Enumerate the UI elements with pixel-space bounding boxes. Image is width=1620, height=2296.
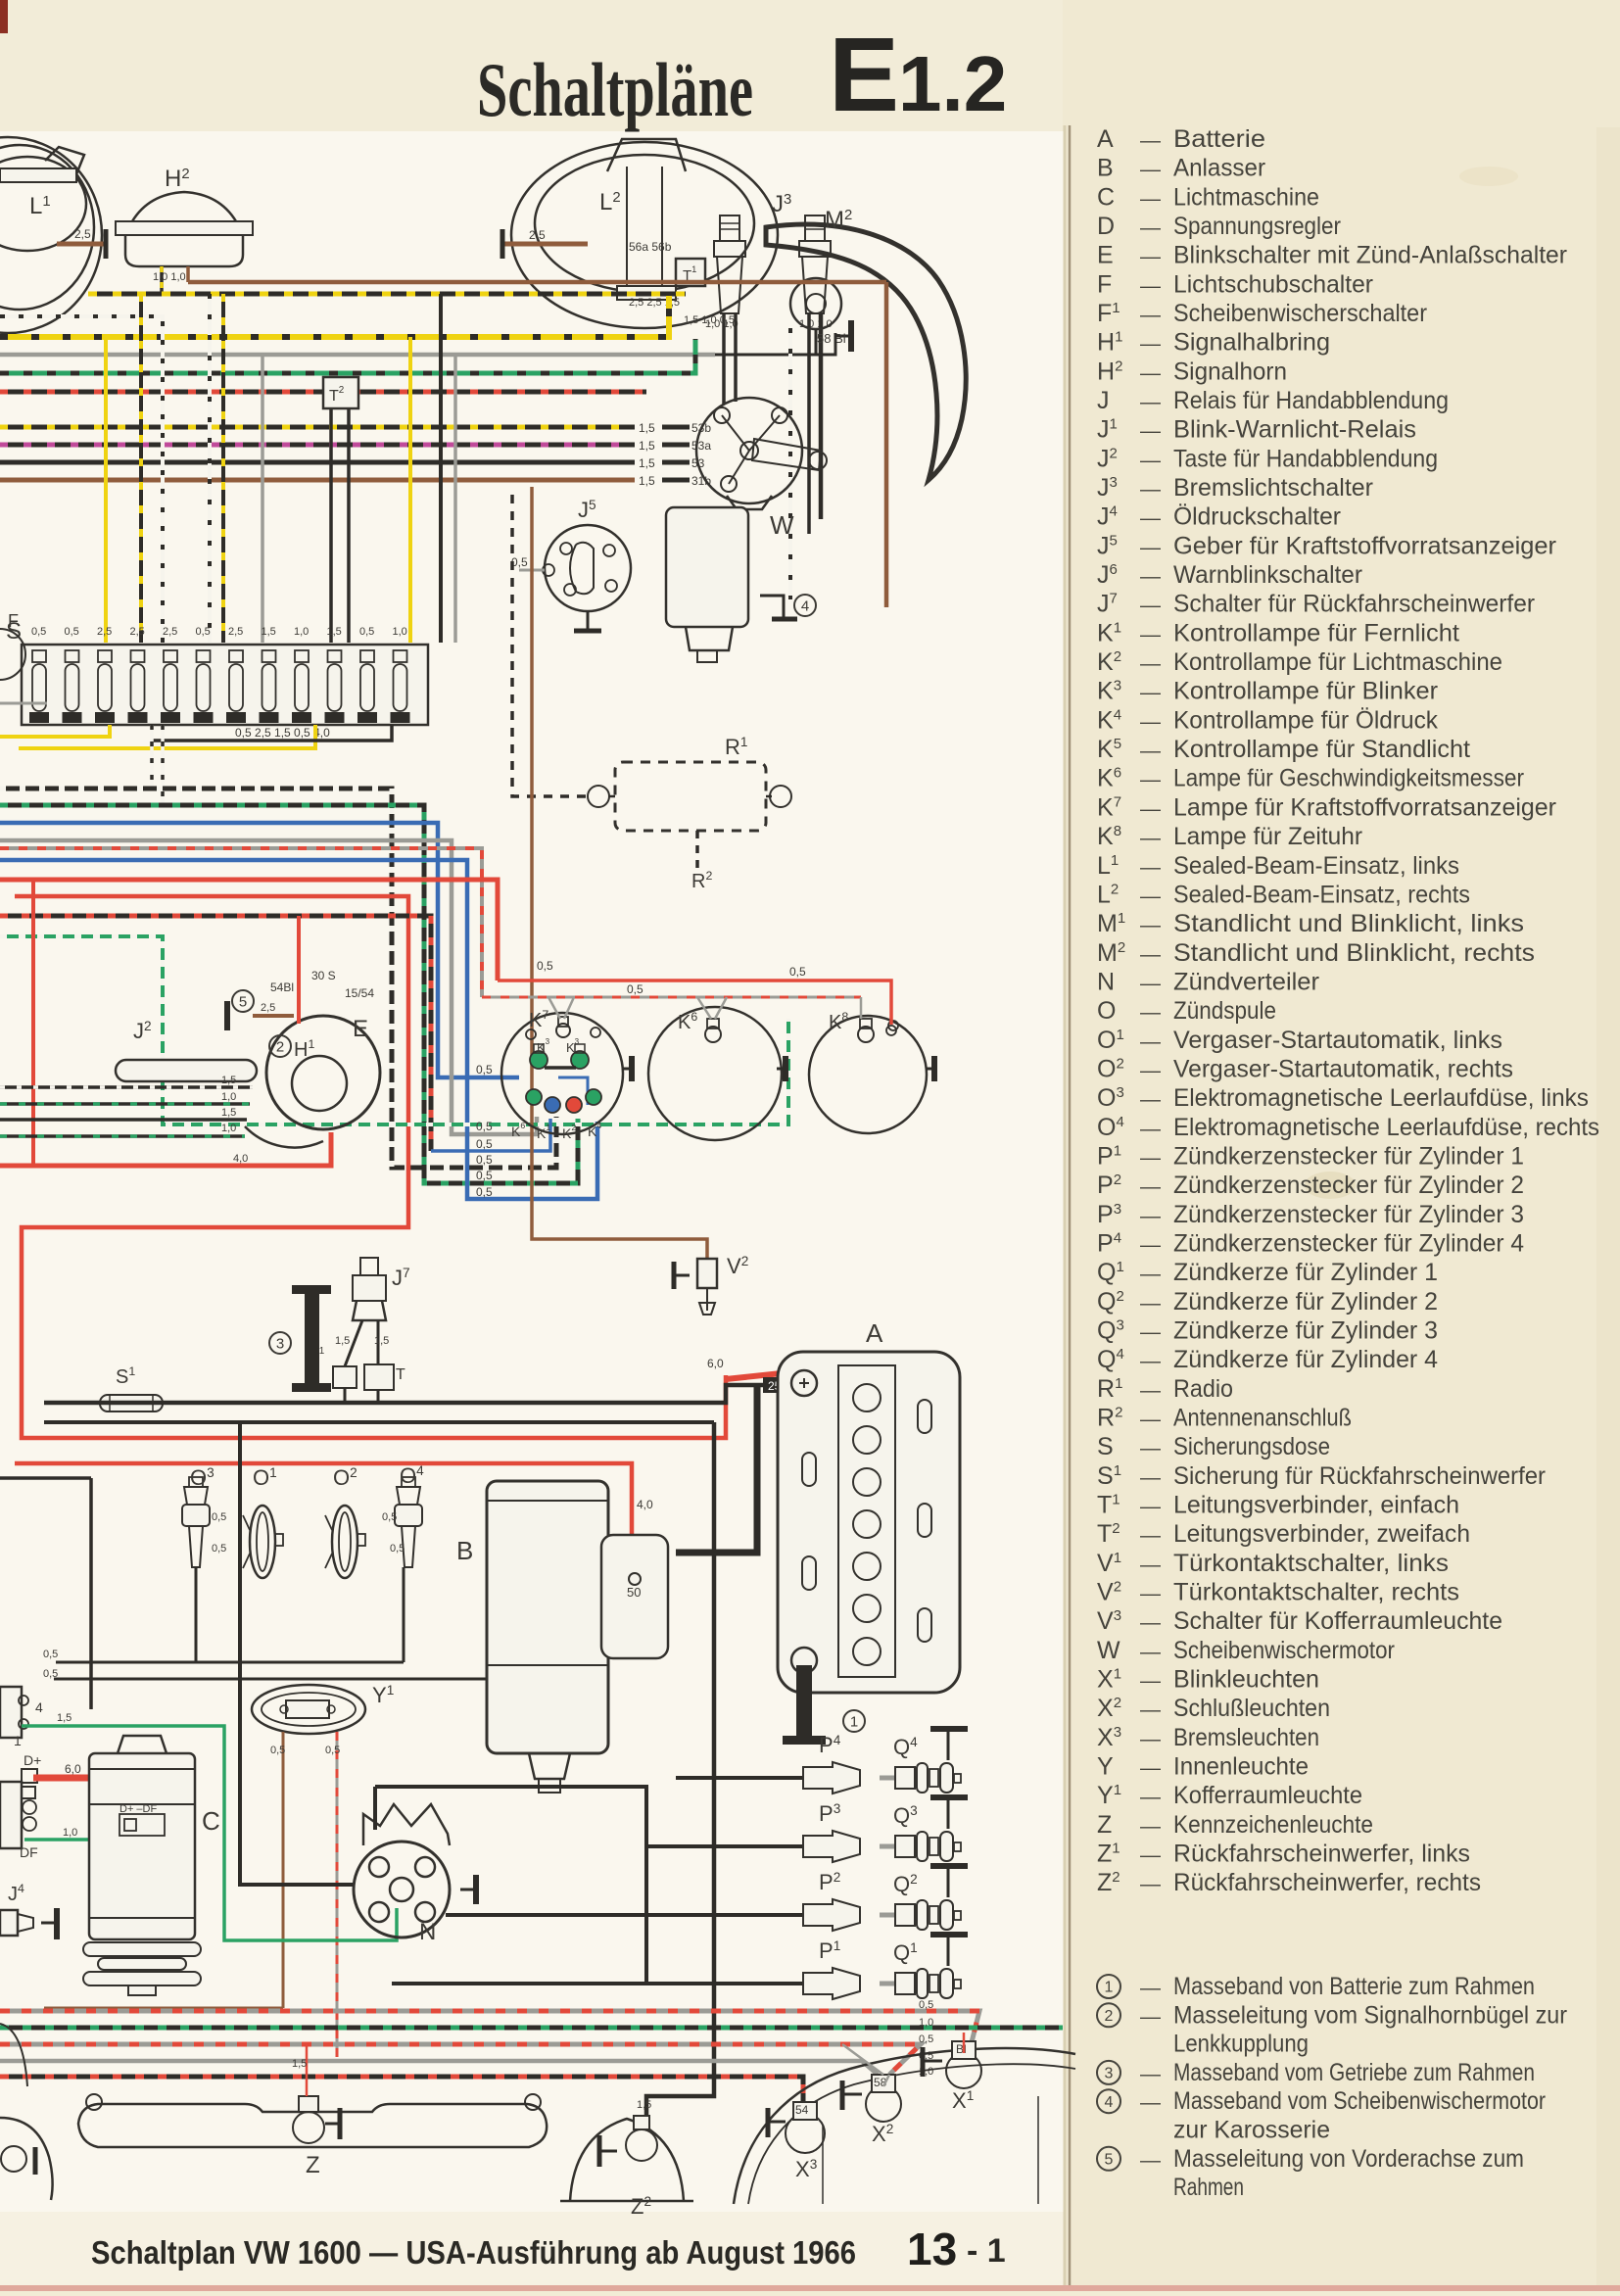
brake light switch J3 left: [720, 215, 739, 241]
ground wire 5: [253, 1014, 294, 1018]
svg-text:—: —: [1140, 2149, 1161, 2172]
wire red cluster feed: [498, 981, 891, 1025]
svg-text:Relais für Handabblendung: Relais für Handabblendung: [1173, 387, 1449, 414]
ground at X3: [766, 2108, 771, 2137]
svg-text:Kennzeichenleuchte: Kennzeichenleuchte: [1173, 1811, 1373, 1839]
battery slot: [918, 1400, 931, 1433]
wire red-grey band 1: [0, 2011, 979, 2042]
wire brown bottom: [44, 2007, 283, 2010]
svg-text:0,5: 0,5: [627, 982, 643, 996]
svg-text:Z: Z: [306, 2152, 320, 2178]
svg-text:2: 2: [276, 1038, 284, 1055]
ground at Z: [338, 2108, 343, 2139]
dimmer button J2: [116, 1060, 257, 1081]
wire red starter feed: [15, 1463, 632, 1575]
svg-text:—: —: [1140, 797, 1161, 820]
fuse 5: [164, 650, 177, 662]
svg-text:2,5: 2,5: [130, 626, 145, 638]
connector T1 lower: [333, 1366, 357, 1388]
ground note 4: [1097, 2089, 1120, 2113]
svg-text:E: E: [829, 15, 899, 133]
svg-text:Bremsleuchten: Bremsleuchten: [1173, 1724, 1319, 1751]
lamp K6: [526, 1089, 542, 1105]
wire green to distributor: [22, 1726, 397, 1940]
wire lamp feeds: [883, 2075, 889, 2086]
wire black-green band bottom: [0, 2026, 1063, 2031]
svg-text:Sealed-Beam-Einsatz, rechts: Sealed-Beam-Einsatz, rechts: [1173, 881, 1470, 908]
wire blue band b: [0, 860, 597, 1199]
wire red band b: [15, 896, 726, 1438]
license plate light Z: [78, 2104, 547, 2147]
svg-text:53a: 53a: [691, 439, 711, 453]
wire white drop: [208, 294, 212, 643]
svg-text:58 Bl: 58 Bl: [817, 331, 846, 346]
svg-text:Zündkerzenstecker für Zylinder: Zündkerzenstecker für Zylinder 3: [1173, 1201, 1524, 1228]
svg-text:—: —: [1140, 1263, 1161, 1285]
lamp in fuel gauge: [705, 1027, 721, 1042]
svg-text:Y: Y: [1097, 1753, 1114, 1781]
wire grey band bottom: [0, 2061, 878, 2075]
svg-text:3: 3: [1105, 2066, 1114, 2082]
generator pulley: [83, 1942, 201, 1956]
battery slot: [918, 1608, 931, 1642]
svg-text:0,5: 0,5: [476, 1063, 493, 1076]
turn lamp M2: [766, 224, 966, 480]
wire black drop: [439, 294, 443, 643]
wire battery to starter: [676, 1385, 757, 1553]
svg-text:Türkontaktschalter, rechts: Türkontaktschalter, rechts: [1173, 1579, 1459, 1606]
svg-text:0,5: 0,5: [537, 959, 553, 973]
svg-text:Lichtschubschalter: Lichtschubschalter: [1173, 270, 1373, 298]
svg-text:Anlasser: Anlasser: [1173, 155, 1265, 182]
svg-text:—: —: [1140, 943, 1161, 966]
wire L2 brown feed: [502, 242, 588, 247]
svg-text:O: O: [1097, 997, 1116, 1025]
svg-text:—: —: [1140, 1233, 1161, 1256]
choke O1: [250, 1506, 275, 1578]
ground note 5: [1097, 2147, 1120, 2171]
svg-text:Blink-Warnlicht-Relais: Blink-Warnlicht-Relais: [1173, 416, 1416, 444]
starter terminals: [629, 1573, 641, 1585]
svg-text:Masseleitung von Vorderachse z: Masseleitung von Vorderachse zum: [1173, 2145, 1524, 2173]
ground at X2: [840, 2081, 845, 2110]
battery cell 1: [853, 1384, 881, 1411]
ground note 2: [1097, 2003, 1120, 2027]
svg-text:—: —: [1140, 1030, 1161, 1053]
wire brown 31b: [0, 478, 635, 483]
switch E feed wires: [0, 1085, 253, 1089]
svg-text:6,0: 6,0: [707, 1357, 724, 1370]
svg-text:Lichtmaschine: Lichtmaschine: [1173, 183, 1319, 211]
svg-text:0,5: 0,5: [325, 1745, 340, 1756]
svg-text:Kontrollampe für Lichtmaschine: Kontrollampe für Lichtmaschine: [1173, 648, 1502, 676]
svg-text:Rückfahrscheinwerfer, rechts: Rückfahrscheinwerfer, rechts: [1173, 1869, 1481, 1896]
svg-text:—: —: [1140, 565, 1161, 588]
wire O3 return: [195, 1567, 198, 1662]
svg-text:Standlicht und Blinklicht, rec: Standlicht und Blinklicht, rechts: [1173, 939, 1535, 967]
svg-text:0,5: 0,5: [212, 1511, 226, 1523]
lamp K2: [566, 1097, 582, 1113]
svg-text:4: 4: [1105, 2094, 1114, 2111]
oil switch J4: [0, 1910, 18, 1936]
fuse 8: [262, 650, 276, 662]
wire reverse feed: [646, 1422, 714, 2116]
svg-text:1,5: 1,5: [335, 1335, 350, 1347]
connector T2: [323, 377, 358, 408]
generator C: [118, 1736, 167, 1753]
svg-text:—: —: [1140, 1977, 1161, 1999]
svg-text:S: S: [1097, 1433, 1114, 1460]
svg-text:Schalter für Rückfahrscheinwer: Schalter für Rückfahrscheinwerfer: [1173, 591, 1535, 618]
svg-text:—: —: [1140, 2063, 1161, 2085]
bottom page edge: [0, 2285, 1620, 2291]
idle valve O4: [402, 1477, 415, 1487]
svg-text:1,5 1,0 0,5: 1,5 1,0 0,5: [684, 314, 735, 326]
svg-text:1,0: 1,0: [221, 1091, 236, 1103]
wiper motor W: [666, 507, 748, 627]
svg-text:Lampe für Geschwindigkeitsmess: Lampe für Geschwindigkeitsmesser: [1173, 765, 1524, 792]
J5 lead: [519, 569, 545, 572]
svg-text:—: —: [1140, 1495, 1161, 1517]
lamp K1: [545, 1097, 560, 1113]
svg-text:0,5: 0,5: [65, 626, 79, 638]
svg-text:1,5: 1,5: [221, 1075, 236, 1086]
svg-text:Spannungsregler: Spannungsregler: [1173, 213, 1341, 240]
svg-text:54Bl: 54Bl: [270, 981, 294, 994]
svg-text:—: —: [1140, 710, 1161, 733]
svg-text:5: 5: [1105, 2151, 1114, 2168]
svg-text:4: 4: [35, 1699, 43, 1715]
svg-text:D+: D+: [24, 1752, 41, 1768]
svg-text:0,5: 0,5: [919, 2033, 933, 2045]
spark plug circuit 3: [646, 1844, 803, 1848]
wire 58Bl link: [715, 333, 835, 355]
svg-text:—: —: [1140, 1873, 1161, 1895]
svg-text:—: —: [1140, 536, 1161, 558]
wire black-yellow 53b: [0, 425, 635, 430]
wire Y1 brown: [282, 1732, 285, 2008]
svg-text:Antennenanschluß: Antennenanschluß: [1173, 1404, 1352, 1431]
svg-text:1: 1: [14, 1733, 22, 1748]
wire black-yellow band: [88, 292, 686, 297]
starter B: [487, 1481, 608, 1753]
svg-text:30 S: 30 S: [311, 969, 336, 982]
wire T2 drop b: [347, 408, 351, 643]
fuse 10: [328, 650, 342, 662]
svg-text:D+ –DF: D+ –DF: [119, 1803, 157, 1815]
speedometer housing: [501, 1013, 623, 1134]
svg-text:Kontrollampe für Fernlicht: Kontrollampe für Fernlicht: [1173, 619, 1459, 646]
fuse 4: [131, 650, 145, 662]
brake light switch J3 right: [805, 215, 825, 241]
svg-text:Scheibenwischermotor: Scheibenwischermotor: [1173, 1637, 1395, 1664]
svg-text:—: —: [1140, 1088, 1161, 1111]
svg-text:Türkontaktschalter, links: Türkontaktschalter, links: [1173, 1550, 1449, 1577]
svg-text:Schaltplan VW 1600 — USA-Ausfü: Schaltplan VW 1600 — USA-Ausführung ab A…: [91, 2234, 856, 2271]
svg-text:2: 2: [1105, 2008, 1114, 2025]
fuse 9: [295, 650, 309, 662]
svg-text:Batterie: Batterie: [1173, 125, 1265, 153]
headlamp L1: [0, 137, 102, 333]
svg-text:—: —: [1140, 478, 1161, 501]
ground at M2: [848, 320, 854, 352]
svg-text:—: —: [1140, 1118, 1161, 1140]
svg-text:1,0 1,0: 1,0 1,0: [153, 271, 186, 283]
fuel gauge housing: [648, 1007, 782, 1140]
reverse switch J7: [360, 1258, 378, 1275]
svg-text:E: E: [353, 1016, 368, 1042]
wire grey band mid: [0, 840, 537, 1134]
svg-text:—: —: [1140, 304, 1161, 326]
svg-text:1,5: 1,5: [327, 626, 342, 638]
svg-text:1,5: 1,5: [57, 1712, 71, 1724]
svg-text:1,0: 1,0: [919, 2017, 933, 2029]
wire white pair a: [150, 725, 154, 789]
svg-text:50: 50: [627, 1585, 641, 1600]
fuel sender J5: [545, 525, 631, 611]
switch E contacts: [245, 1126, 323, 1148]
battery cell 3: [853, 1468, 881, 1496]
wire O4 return: [403, 1567, 405, 1662]
svg-text:Vergaser-Startautomatik, recht: Vergaser-Startautomatik, rechts: [1173, 1055, 1513, 1082]
svg-text:1,5: 1,5: [374, 1335, 389, 1347]
fuse 6: [197, 650, 211, 662]
svg-text:Zündverteiler: Zündverteiler: [1173, 968, 1319, 995]
svg-text:0,5: 0,5: [476, 1120, 493, 1133]
lamp K7: [556, 1024, 570, 1037]
svg-text:—: —: [1140, 187, 1161, 210]
cluster link: [545, 1066, 576, 1070]
wire red-black band bottom: [0, 2077, 803, 2102]
wire black-red band mid: [0, 916, 431, 1151]
svg-text:1,5: 1,5: [221, 1107, 236, 1119]
ground at J4: [41, 1922, 55, 1925]
ground at X1: [921, 2047, 926, 2077]
wire red band to cluster: [0, 880, 498, 981]
svg-text:1,5: 1,5: [639, 421, 655, 435]
fuse 11: [360, 650, 374, 662]
svg-text:Blinkleuchten: Blinkleuchten: [1173, 1666, 1319, 1694]
ground at distributor: [460, 1889, 474, 1891]
label 25: [763, 1377, 810, 1393]
engine frame: [375, 1787, 646, 1984]
svg-text:B: B: [1097, 155, 1114, 182]
svg-text:6,0: 6,0: [65, 1762, 81, 1776]
svg-text:—: —: [1140, 507, 1161, 530]
wire grey band: [0, 353, 715, 358]
voltage regulator D: [0, 1782, 22, 1848]
fuse 12: [394, 650, 407, 662]
svg-text:—: —: [1140, 885, 1161, 907]
svg-text:DF: DF: [20, 1844, 38, 1860]
spark plug circuit 4: [676, 1776, 803, 1780]
wire yellow band: [0, 296, 669, 337]
svg-text:—: —: [1140, 1641, 1161, 1663]
ground at clock: [931, 1056, 937, 1081]
switch E body: [266, 1016, 380, 1129]
lamp stub left edge: [0, 2024, 27, 2086]
svg-text:—: —: [1140, 1611, 1161, 1634]
svg-text:zur Karosserie: zur Karosserie: [1173, 2117, 1330, 2144]
svg-text:0,5: 0,5: [359, 626, 374, 638]
svg-text:Sealed-Beam-Einsatz, links: Sealed-Beam-Einsatz, links: [1173, 852, 1459, 880]
battery cell 6: [853, 1595, 881, 1622]
svg-text:Elektromagnetische Leerlaufdüs: Elektromagnetische Leerlaufdüse, rechts: [1173, 1114, 1599, 1141]
page fold edge: [1069, 125, 1072, 2291]
svg-text:1,5: 1,5: [262, 626, 276, 638]
svg-text:Standlicht und Blinklicht, lin: Standlicht und Blinklicht, links: [1173, 910, 1524, 937]
wire black-magenta 53a: [0, 443, 635, 448]
fuse 7: [229, 650, 243, 662]
svg-text:1,0: 1,0: [221, 1123, 236, 1134]
wire yellow drop: [104, 337, 108, 643]
wire red-grey band 2: [0, 2044, 921, 2075]
wire red loop left: [31, 880, 35, 1166]
svg-text:Sicherungsdose: Sicherungsdose: [1173, 1433, 1330, 1460]
wire speedo V feed: [548, 997, 560, 1019]
svg-text:W: W: [770, 510, 794, 540]
wire red ignition 4.0: [0, 1132, 331, 1166]
svg-text:—: —: [1140, 740, 1161, 762]
battery plus terminal: [791, 1370, 817, 1396]
svg-text:—: —: [1140, 159, 1161, 181]
wire brown drop: [884, 282, 889, 607]
wire return bus b: [54, 1678, 548, 1681]
svg-text:B: B: [456, 1536, 473, 1565]
lamp in Z: [293, 2112, 324, 2143]
svg-text:- 1: - 1: [967, 2232, 1006, 2270]
wire grey drop: [261, 355, 264, 643]
svg-text:—: —: [1140, 216, 1161, 239]
battery cell 4: [853, 1510, 881, 1538]
svg-text:Masseband von Batterie zum Rah: Masseband von Batterie zum Rahmen: [1173, 1973, 1535, 2000]
svg-text:2,5: 2,5: [97, 626, 112, 638]
horn H2: [132, 192, 236, 221]
svg-text:0,5: 0,5: [476, 1137, 493, 1151]
svg-text:Zündkerze für Zylinder 4: Zündkerze für Zylinder 4: [1173, 1346, 1438, 1373]
spark plug circuit 1: [392, 1982, 803, 1985]
svg-text:1,5: 1,5: [639, 474, 655, 488]
svg-text:Bremslichtschalter: Bremslichtschalter: [1173, 474, 1373, 502]
wire green-white loop: [0, 936, 788, 1124]
svg-text:Kontrollampe für Öldruck: Kontrollampe für Öldruck: [1173, 706, 1438, 734]
svg-text:—: —: [1140, 1670, 1161, 1693]
svg-text:—: —: [1140, 1844, 1161, 1867]
svg-text:—: —: [1140, 652, 1161, 675]
svg-text:E: E: [1097, 242, 1114, 269]
svg-text:A: A: [866, 1318, 883, 1348]
svg-text:Kontrollampe für Standlicht: Kontrollampe für Standlicht: [1173, 736, 1470, 763]
svg-text:—: —: [1140, 1786, 1161, 1808]
svg-text:1,5: 1,5: [637, 2099, 651, 2111]
tail lamp X2: [866, 2086, 901, 2122]
wire black 53: [0, 460, 635, 465]
svg-text:1: 1: [850, 1713, 858, 1730]
svg-text:Radio: Radio: [1173, 1375, 1233, 1403]
clock terminal: [888, 1021, 898, 1030]
battery slot: [918, 1504, 931, 1537]
svg-text:Sicherung für Rückfahrscheinwe: Sicherung für Rückfahrscheinwerfer: [1173, 1462, 1546, 1490]
svg-text:1.2: 1.2: [898, 40, 1007, 127]
door contact switch V2: [697, 1259, 717, 1288]
svg-text:—: —: [1140, 682, 1161, 704]
svg-text:2,5 2,5 1,5: 2,5 2,5 1,5: [629, 297, 680, 309]
svg-text:Vergaser-Startautomatik, links: Vergaser-Startautomatik, links: [1173, 1027, 1502, 1054]
wire blue stub: [431, 1119, 550, 1151]
svg-text:Zündkerze für Zylinder 3: Zündkerze für Zylinder 3: [1173, 1316, 1438, 1344]
svg-text:4: 4: [801, 598, 809, 614]
ground 4 at wiper motor: [760, 596, 784, 617]
wire brown band: [188, 280, 886, 285]
headlamp L2: [511, 142, 778, 328]
wire black mid drop: [89, 1478, 93, 1709]
svg-text:C: C: [202, 1806, 220, 1836]
wire radio dashed feed: [512, 495, 588, 796]
fuse box S: [22, 645, 428, 725]
svg-text:J: J: [1097, 387, 1110, 414]
svg-text:—: —: [1140, 2005, 1161, 2028]
wire brown to V2: [532, 487, 707, 1259]
wire white pair b: [161, 725, 165, 805]
svg-text:—: —: [1140, 972, 1161, 994]
battery minus terminal: [791, 1648, 817, 1673]
wire red switch top feed: [297, 916, 301, 1024]
wire green-black band: [0, 339, 695, 373]
svg-text:Lampe für Zeituhr: Lampe für Zeituhr: [1173, 823, 1362, 850]
svg-text:Öldruckschalter: Öldruckschalter: [1173, 503, 1341, 531]
svg-text:13: 13: [907, 2224, 957, 2274]
svg-text:Schaltpläne: Schaltpläne: [477, 47, 753, 132]
lamp K3 left: [530, 1051, 548, 1069]
svg-text:0,5: 0,5: [382, 1511, 397, 1523]
horn half ring H1: [292, 1056, 347, 1111]
battery slot: [802, 1453, 816, 1486]
wire red-black band: [0, 390, 646, 395]
svg-text:1,5: 1,5: [292, 2058, 307, 2070]
svg-text:Kontrollampe für Blinker: Kontrollampe für Blinker: [1173, 678, 1438, 705]
svg-text:—: —: [1140, 1466, 1161, 1489]
brake lamp X3: [786, 2114, 825, 2153]
svg-text:Masseband vom Scheibenwischerm: Masseband vom Scheibenwischermotor: [1173, 2087, 1546, 2115]
lamp K3 right: [571, 1051, 589, 1069]
svg-text:Leitungsverbinder, einfach: Leitungsverbinder, einfach: [1173, 1491, 1459, 1518]
svg-text:0,5: 0,5: [390, 1543, 405, 1555]
wire green 1.0: [24, 1826, 151, 1840]
choke O2: [332, 1506, 357, 1578]
svg-text:—: —: [1140, 914, 1161, 936]
svg-text:0,5: 0,5: [476, 1185, 493, 1199]
svg-text:1,0: 1,0: [63, 1827, 77, 1839]
svg-text:Innenleuchte: Innenleuchte: [1173, 1753, 1309, 1781]
svg-text:1,5: 1,5: [639, 439, 655, 453]
svg-text:0,5: 0,5: [476, 1169, 493, 1182]
svg-text:3: 3: [276, 1335, 284, 1352]
battery cell 2: [853, 1426, 881, 1454]
svg-text:—: —: [1140, 333, 1161, 356]
svg-text:1,5: 1,5: [639, 456, 655, 470]
wire J3 down c: [807, 313, 811, 534]
battery A: [778, 1352, 960, 1693]
wire Y1 grey-red: [336, 1732, 339, 2057]
svg-text:0,5: 0,5: [789, 965, 806, 979]
svg-text:—: —: [1140, 1757, 1161, 1780]
wire return bus a: [56, 1661, 404, 1664]
wire main black lower: [44, 1420, 714, 1424]
battery slot: [802, 1556, 816, 1590]
svg-text:54: 54: [795, 2103, 809, 2117]
svg-text:Zündkerzenstecker für Zylinder: Zündkerzenstecker für Zylinder 1: [1173, 1142, 1524, 1170]
wire red 6.0: [33, 1778, 119, 1806]
